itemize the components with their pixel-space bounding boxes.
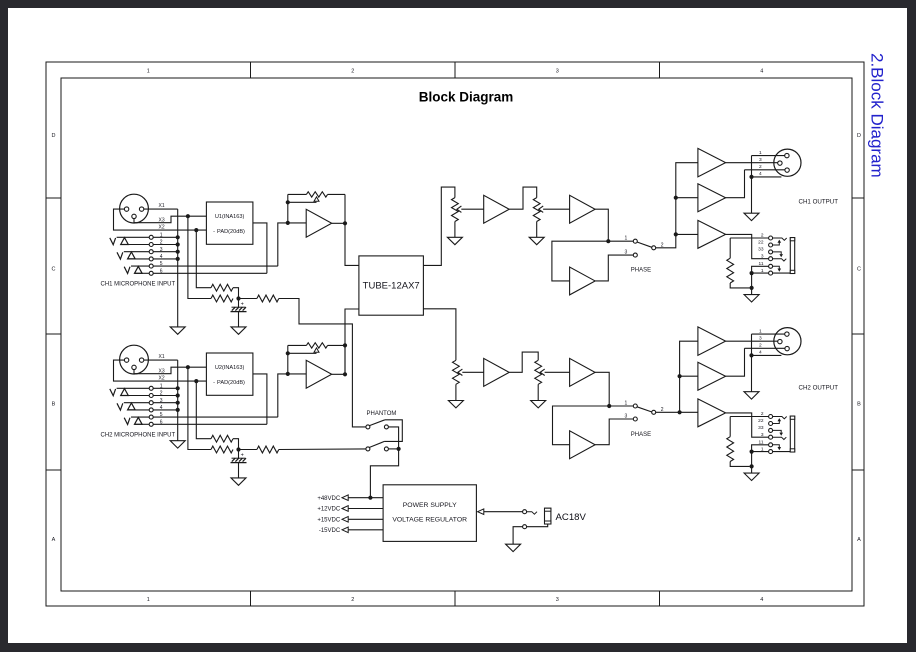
svg-text:1: 1 [759, 150, 762, 156]
terminal 33 jack CH2 [769, 428, 773, 432]
terminal 11 jack CH2 [769, 443, 773, 447]
svg-text:33: 33 [758, 425, 764, 431]
node bus CH1 pin1/ground bus [177, 209, 179, 327]
wire XLR ground tie CH2 [751, 334, 753, 355]
junction amp input CH2 [286, 372, 290, 376]
wire CH1 phantom feed [279, 299, 366, 427]
decoupling capacitor C2 (polarized) [231, 450, 247, 478]
phantom switch pole 2 [366, 441, 389, 451]
svg-text:22: 22 [758, 418, 764, 424]
junction X2 CH2 [194, 379, 198, 383]
jack contact 11 CH1 [773, 266, 782, 271]
junction tube riser CH2 [343, 343, 347, 347]
ground pot2 CH1 [529, 237, 544, 244]
feedback network CH1 [288, 194, 307, 223]
supply rail +48VDC [342, 495, 383, 501]
wire XLR pin2 CH2 [726, 340, 778, 342]
wire row 5 CH1 input [131, 265, 149, 267]
wire row 4 CH1 input [128, 258, 150, 260]
wire driver C to jack ring CH1 [726, 234, 769, 258]
jack chevron tip CH2 [773, 417, 787, 419]
terminal 3 phase switch CH1 [633, 253, 637, 257]
wire row 1 CH1 to bus [153, 236, 178, 238]
wire to driver B CH1 [676, 197, 698, 199]
junction phantom out [397, 447, 401, 451]
svg-text:4: 4 [760, 68, 763, 74]
svg-text:1: 1 [625, 236, 628, 242]
preamp U1 (INA163) CH1 [206, 202, 253, 244]
svg-text:CH1 OUTPUT: CH1 OUTPUT [799, 198, 839, 205]
junction X3 CH1 [186, 214, 190, 218]
output driver C CH1 [698, 220, 726, 248]
feedback network CH2 [288, 345, 307, 374]
wire row 3 CH2 to bus [153, 402, 178, 404]
svg-text:TUBE-12AX7: TUBE-12AX7 [363, 281, 420, 292]
svg-text:B: B [857, 402, 861, 408]
svg-text:4: 4 [759, 171, 762, 177]
junction output driver B CH1 [674, 196, 678, 200]
gain pot wiper CH1 [288, 197, 319, 202]
wire XLR pin1 CH1 [752, 155, 785, 157]
svg-text:2: 2 [759, 342, 762, 348]
wire sleeve CH1 [752, 272, 769, 274]
wire row 3 CH2 input [124, 402, 149, 404]
wire sleeve to jack body CH1 [773, 272, 791, 274]
wire sleeve to ground CH2 [751, 452, 753, 467]
decoupling capacitor C1 (polarized) [231, 299, 247, 327]
junction XLR ground CH1 [749, 175, 753, 179]
terminal 3 phase switch CH2 [633, 417, 637, 421]
svg-text:3: 3 [761, 253, 764, 259]
wire A4 out to terminal 3 CH1 [595, 255, 633, 281]
output driver C CH2 [698, 399, 726, 427]
junction sleeve CH2 [750, 450, 754, 454]
wire row 4 CH1 to bus [153, 258, 178, 260]
phantom feed resistor R2c [239, 449, 257, 451]
svg-text:2: 2 [759, 164, 762, 170]
wire A2 out to pot2 CH2 [509, 352, 538, 372]
junction output driver B CH2 [678, 374, 682, 378]
svg-text:X1: X1 [159, 354, 165, 360]
wire row 5 CH2 input [131, 416, 149, 418]
jack switch contact pair 1 CH2 [110, 389, 116, 396]
terminating resistor CH2 [729, 417, 731, 437]
terminal 3 jack CH2 [769, 435, 773, 439]
wire AC input [478, 509, 523, 515]
terminal 1 CH1 input [149, 235, 153, 239]
wire A3 out to phase node CH1 [595, 209, 633, 241]
ground pot1 CH1 [447, 237, 462, 244]
wire XLR pin3 CH1 [745, 169, 785, 171]
terminal 3 jack CH1 [769, 257, 773, 261]
terminal 5 CH2 input [149, 415, 153, 419]
wiper pot1 CH1 [457, 206, 484, 212]
svg-text:X2: X2 [159, 224, 165, 230]
wire row5 to amp input CH1 [278, 223, 306, 266]
svg-text:POWER SUPPLY: POWER SUPPLY [403, 502, 457, 509]
wire row 1 CH1 input [117, 236, 150, 238]
svg-text:PHANTOM: PHANTOM [367, 411, 397, 417]
label XLR pins CH1 [759, 150, 762, 177]
ground pad capacitor CH2 [231, 478, 246, 485]
svg-text:A: A [52, 537, 56, 543]
op-amp first stage CH1 [306, 209, 332, 237]
wire row 4 CH2 input [128, 409, 150, 411]
ground AC [506, 544, 521, 551]
svg-text:-: - [213, 380, 215, 386]
wire pad Ra to node CH1 [233, 288, 239, 299]
junction row 4 CH1 [176, 257, 180, 261]
svg-text:B: B [52, 402, 56, 408]
terminal 11 jack CH1 [769, 264, 773, 268]
wire phantom to +48V [370, 449, 398, 498]
wire XLR ground tie CH1 [751, 156, 753, 177]
wire row 2 CH1 input [121, 244, 150, 246]
junction phase node CH1 [606, 239, 610, 243]
wiper pot2 CH1 [539, 206, 570, 212]
wire row 6 CH2 to bus [153, 423, 267, 425]
wire 11 to sleeve CH1 [752, 266, 769, 273]
phase switch arm CH2 [637, 407, 652, 412]
jack body CH1 [790, 238, 794, 274]
wire to inverter A4 CH2 [553, 406, 610, 445]
junction XLR ground CH2 [749, 353, 753, 357]
wire CH2 phantom feed [279, 448, 366, 451]
op-amp buffer A2 CH2 [484, 358, 510, 386]
op-amp A3 CH1 [570, 195, 596, 223]
junction sleeve CH1 [750, 271, 754, 275]
wire pot2 CH2 to ground [537, 384, 539, 400]
wire first stage output CH1 [332, 223, 359, 265]
wire feedback right CH2 [328, 345, 345, 374]
junction feedback wiper CH1 [286, 200, 290, 204]
wire X2 CH1 [114, 209, 207, 230]
terminal 1 jack CH2 [769, 450, 773, 454]
pad resistor R1b [211, 295, 233, 302]
terminal 4 CH2 input [149, 408, 153, 412]
XLR connector CH1 microphone input [120, 194, 149, 223]
svg-text:VOLTAGE REGULATOR: VOLTAGE REGULATOR [392, 517, 467, 524]
wire pot1 CH2 to ground [455, 384, 457, 400]
level potentiometer CH1 first [452, 198, 459, 222]
XLR output connector CH2 [774, 328, 801, 355]
terminal 2 jack CH2 [769, 415, 773, 419]
terminal 1 phase switch CH1 [633, 239, 637, 243]
wire driver B to pin3 CH1 [726, 170, 745, 198]
terminal 2 phase switch CH1 [652, 246, 656, 250]
terminal 2 CH1 input [149, 243, 153, 247]
jack switch contact pair 3 CH2 [124, 418, 130, 425]
terminal 2 jack CH1 [769, 236, 773, 240]
pad resistor R1a [211, 284, 233, 291]
wire X3 CH2 [134, 367, 206, 374]
output driver A CH1 [698, 148, 726, 177]
junction output driver C CH2 [678, 410, 682, 414]
jack contact 11 CH2 [773, 445, 782, 450]
svg-text:+: + [241, 302, 244, 308]
terminal 2 phase switch CH2 [652, 410, 656, 414]
wire row 5 CH1 to bus [153, 265, 278, 267]
wiper pot1 CH2 [458, 369, 484, 375]
ground jack CH2 [744, 473, 759, 480]
wire row 6 CH1 input [135, 272, 150, 274]
wire X1 CH1 [144, 208, 178, 210]
wire pad Ra to node CH2 [233, 439, 239, 450]
ground pad capacitor CH1 [231, 327, 246, 334]
svg-text:-15VDC: -15VDC [319, 528, 341, 534]
gain resistor (variable) CH1 [306, 192, 327, 197]
wire XLR shell CH2 [752, 354, 782, 356]
svg-text:PAD(20dB): PAD(20dB) [217, 380, 245, 386]
wire X2 CH2 [114, 360, 207, 381]
svg-text:X2: X2 [159, 375, 165, 381]
svg-text:2: 2 [351, 68, 354, 74]
svg-text:1: 1 [147, 68, 150, 74]
wire resistor to ground node CH2 [730, 462, 749, 467]
node bus CH2 pin1/ground bus [177, 360, 179, 441]
svg-text:3: 3 [556, 597, 559, 603]
wire 11 to sleeve CH2 [752, 445, 769, 452]
svg-text:+12VDC: +12VDC [317, 507, 341, 513]
wire phase common to output bus CH1 [656, 163, 698, 248]
junction row 1 CH1 [176, 235, 180, 239]
wire pot2 CH1 to ground [536, 222, 538, 238]
terminal 6 CH2 input [149, 422, 153, 426]
wire A2 out to pot2 CH1 [509, 187, 537, 209]
svg-text:+: + [241, 453, 244, 459]
terminal 1 jack CH1 [769, 271, 773, 275]
jack switch contact pair 2 CH1 [117, 252, 123, 259]
supply rail -15VDC [342, 527, 383, 533]
wire sleeve to jack body CH2 [773, 451, 791, 453]
svg-text:PHASE: PHASE [631, 432, 651, 438]
AC switch contact [527, 512, 537, 515]
jack contact 33 CH1 [773, 252, 783, 257]
wire jack tip line CH2 [730, 416, 768, 418]
svg-text:X3: X3 [159, 217, 165, 223]
junction jack ground CH2 [750, 464, 754, 468]
jack chevron ring CH1 [773, 259, 787, 261]
ground XLR output CH1 [744, 213, 759, 220]
wire row 3 CH1 input [124, 251, 149, 253]
terminal 1 phase switch CH2 [633, 404, 637, 408]
wire to XLR ground CH2 [751, 355, 753, 391]
phantom switch pole 1 [366, 420, 389, 429]
svg-text:3: 3 [556, 68, 559, 74]
svg-text:C: C [857, 267, 861, 273]
svg-text:+48VDC: +48VDC [317, 496, 341, 502]
op-amp buffer A2 CH1 [484, 195, 510, 223]
wire to jack ground CH1 [751, 288, 753, 295]
terminal 5 CH1 input [149, 264, 153, 268]
svg-text:3: 3 [759, 335, 762, 341]
op-amp A3 CH2 [570, 358, 596, 386]
wire row 2 CH1 to bus [153, 244, 178, 246]
jack contact 22 CH2 [773, 418, 782, 423]
jack switch contact pair 2 CH2 [117, 403, 123, 410]
junction phase node CH2 [607, 404, 611, 408]
phantom switch link [384, 420, 402, 442]
jack contact 33 CH2 [773, 430, 783, 435]
svg-text:2.Block Diagram: 2.Block Diagram [868, 53, 887, 178]
wire to inverter A4 CH1 [552, 241, 608, 281]
terminal 2 CH2 input [149, 394, 153, 398]
wire to XLR ground CH1 [751, 177, 753, 213]
wire row 6 CH1 to bus [153, 272, 267, 274]
wire XLR pin2 CH1 [726, 162, 778, 164]
svg-text:C: C [52, 267, 56, 273]
svg-text:CH1 MICROPHONE INPUT: CH1 MICROPHONE INPUT [101, 282, 176, 288]
svg-text:U1(INA163): U1(INA163) [215, 214, 245, 220]
supply rail +12VDC [342, 506, 383, 512]
pad resistor R2b [211, 446, 233, 453]
pad resistor R2a [211, 435, 233, 442]
wire XLR shell CH1 [752, 176, 782, 178]
wire tube output CH1 to level pot [423, 187, 455, 265]
terminal 3 CH2 input [149, 401, 153, 405]
terminal 1 CH2 input [149, 386, 153, 390]
svg-text:1: 1 [759, 328, 762, 334]
level potentiometer CH2 first [453, 360, 460, 384]
junction row 2 CH1 [176, 242, 180, 246]
terminating resistor CH1 [729, 238, 731, 258]
wire driver B to pin3 CH2 [726, 348, 745, 376]
svg-text:1: 1 [625, 401, 628, 407]
jack contact 22 CH1 [773, 240, 782, 245]
wire to driver C CH1 [676, 233, 698, 235]
wire row5 to amp input CH2 [278, 374, 306, 417]
wire XLR pin1 CH2 [752, 333, 785, 335]
ground pot1 CH2 [448, 401, 463, 408]
terminal 33 jack CH1 [769, 250, 773, 254]
gain resistor (variable) CH2 [306, 343, 327, 348]
svg-text:X3: X3 [159, 368, 165, 374]
terminal 22 jack CH1 [769, 243, 773, 247]
terminal 6 CH1 input [149, 271, 153, 275]
XLR output connector CH1 [774, 149, 801, 176]
wire XLR pin3 CH2 [745, 347, 785, 349]
wire pot1 CH1 to ground [454, 222, 456, 238]
terminal 22 jack CH2 [769, 422, 773, 426]
jack switch contact pair 3 CH1 [124, 267, 130, 274]
svg-text:CH2 OUTPUT: CH2 OUTPUT [799, 384, 839, 391]
phase switch arm CH1 [637, 242, 652, 247]
junction row 2 CH2 [176, 393, 180, 397]
wire feedback right CH1 [328, 194, 345, 223]
preamp U2 (INA163) CH2 [206, 353, 253, 395]
op-amp inverter A4 CH2 [570, 431, 596, 459]
wire phantom pole2 out [388, 448, 398, 450]
junction first stage output CH2 [343, 372, 347, 376]
svg-text:A: A [857, 537, 861, 543]
wire tube output CH2 to level pot [423, 309, 456, 361]
terminal 4 CH1 input [149, 257, 153, 261]
output driver B CH1 [698, 184, 726, 212]
wire X3 to pad resistor CH1 [188, 216, 211, 298]
svg-text:-: - [213, 229, 215, 235]
wire row 3 CH1 to bus [153, 251, 178, 253]
svg-text:X1: X1 [159, 203, 165, 209]
wire jack tip line CH1 [730, 237, 768, 239]
level potentiometer CH2 second [535, 360, 542, 384]
svg-text:2: 2 [761, 411, 764, 417]
svg-text:2: 2 [761, 233, 764, 239]
svg-text:2: 2 [351, 597, 354, 603]
wire AC neutral to jack [527, 524, 548, 527]
wire X1 CH2 [144, 359, 178, 361]
wire driver C to jack ring CH2 [726, 413, 769, 437]
wire X3 to pad resistor CH2 [188, 367, 211, 449]
wire row 1 CH2 input [117, 387, 150, 389]
svg-text:U2(INA163): U2(INA163) [215, 365, 245, 371]
wire sleeve CH2 [752, 451, 769, 453]
op-amp inverter A4 CH1 [570, 267, 596, 295]
junction output driver C CH1 [674, 232, 678, 236]
svg-text:1: 1 [147, 597, 150, 603]
power supply block [383, 485, 476, 542]
wire AC neutral to ground [513, 527, 523, 545]
junction row 3 CH2 [176, 401, 180, 405]
junction +48V phantom tap [368, 496, 372, 500]
jack body CH2 [790, 416, 794, 452]
junction pad node CH1 [236, 296, 240, 300]
svg-text:4: 4 [759, 350, 762, 356]
wire row 4 CH2 to bus [153, 409, 178, 411]
svg-text:D: D [52, 133, 56, 139]
junction amp input CH1 [286, 221, 290, 225]
wire row 1 CH2 to bus [153, 387, 178, 389]
level potentiometer CH1 second [533, 198, 540, 222]
wire first stage output CH2 [332, 309, 359, 374]
svg-text:33: 33 [758, 247, 764, 253]
wire U1 output to row6 CH1 [253, 223, 267, 273]
wire row 5 CH2 to bus [153, 416, 278, 418]
junction pad node CH2 [236, 447, 240, 451]
ground pot2 CH2 [531, 401, 546, 408]
junction X3 CH2 [186, 365, 190, 369]
label XLR pins CH2 [759, 328, 762, 355]
output driver B CH2 [698, 362, 726, 390]
junction first stage output CH1 [343, 221, 347, 225]
wire X2 to pad resistor CH2 [196, 381, 211, 439]
jack switch contact pair 1 CH1 [110, 238, 116, 245]
ground CH1 input bus [170, 327, 185, 334]
wire row 6 CH2 input [135, 423, 150, 425]
svg-text:AC18V: AC18V [556, 512, 587, 523]
junction X2 CH1 [194, 228, 198, 232]
AC inlet jack [545, 508, 551, 524]
gain pot wiper CH2 [288, 348, 319, 353]
ground XLR output CH2 [744, 392, 759, 399]
jack chevron tip CH1 [773, 238, 787, 240]
svg-text:CH2 MICROPHONE INPUT: CH2 MICROPHONE INPUT [101, 433, 176, 439]
wire row 2 CH2 input [121, 395, 150, 397]
wire U2 output to row6 CH2 [253, 374, 267, 424]
output driver A CH2 [698, 327, 726, 356]
svg-text:+15VDC: +15VDC [317, 518, 341, 524]
junction row 3 CH1 [176, 250, 180, 254]
XLR connector CH2 microphone input [120, 345, 149, 374]
terminal 3 CH1 input [149, 250, 153, 254]
wire sleeve to ground CH1 [751, 273, 753, 288]
wire X2 to pad resistor CH1 [196, 230, 211, 288]
wire A3 out to phase node CH2 [595, 372, 633, 406]
wire phase common to output bus CH2 [656, 341, 698, 412]
svg-text:3: 3 [759, 157, 762, 163]
terminal AC live [523, 510, 527, 514]
junction feedback wiper CH2 [286, 351, 290, 355]
wire A4 out to terminal 3 CH2 [595, 419, 633, 445]
